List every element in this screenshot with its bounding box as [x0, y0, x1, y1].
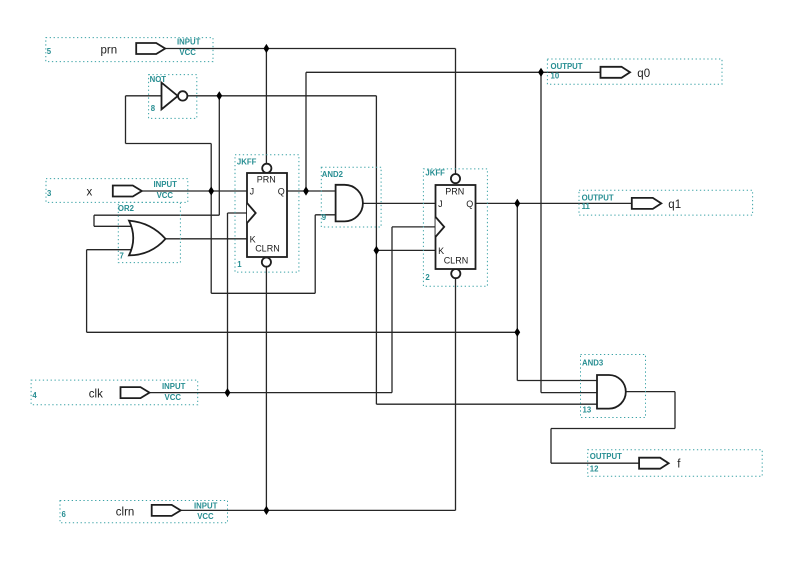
wire AND3 output [626, 391, 675, 393]
svg-text:x: x [87, 186, 93, 198]
wire q1 to AND3 top input [517, 380, 597, 382]
node junction Q1 [303, 186, 309, 195]
wire q0 horizontal [306, 71, 601, 73]
svg-text:INPUT: INPUT [154, 180, 178, 189]
svg-text:VCC: VCC [157, 191, 174, 200]
node junction Q2 [514, 199, 520, 208]
wire clrn horizontal [181, 509, 456, 511]
wire NOT output horizontal [187, 95, 376, 97]
output pin q0 (10) [547, 59, 722, 84]
wire Q2 to q1 output [476, 202, 632, 204]
svg-text:13: 13 [583, 405, 592, 414]
wire Q1 to AND2 input [287, 190, 336, 192]
svg-text:clrn: clrn [116, 506, 135, 518]
svg-text:J: J [250, 187, 255, 197]
node junction clrn [264, 506, 270, 515]
input pin clk (4) [31, 380, 198, 405]
svg-text:CLRN: CLRN [255, 243, 280, 253]
NOT gate (8) [149, 75, 197, 119]
svg-text:PRN: PRN [257, 174, 276, 184]
wire q0 to AND3 middle input [541, 392, 597, 394]
wire q0 down to AND3 [540, 72, 542, 392]
svg-text:INPUT: INPUT [177, 38, 201, 47]
svg-text:8: 8 [151, 104, 156, 113]
node junction prn [264, 44, 270, 53]
wire NOT to K of U2 [376, 249, 435, 251]
wire NOT branch horizontal [94, 214, 219, 216]
svg-text:Q: Q [278, 187, 285, 197]
JK flip-flop U1 JKFF (1) [235, 155, 299, 272]
wire clk up to U1 clock [227, 213, 229, 393]
svg-text:OUTPUT: OUTPUT [551, 62, 583, 71]
wire q1 feedback horizontal [87, 331, 518, 333]
wire prn horizontal [165, 48, 456, 50]
AND gate AND2 (9) [321, 167, 381, 227]
wire AND2 output to J of U2 [363, 202, 436, 204]
svg-text:J: J [438, 199, 443, 209]
svg-text:3: 3 [47, 189, 52, 198]
output pin q1 (11) [579, 190, 753, 215]
svg-text:VCC: VCC [165, 393, 182, 402]
svg-text:JKFF: JKFF [237, 157, 257, 166]
svg-text:OR2: OR2 [118, 204, 135, 213]
output pin f (12) [588, 450, 763, 477]
svg-text:10: 10 [551, 71, 560, 80]
svg-text:AND3: AND3 [582, 358, 604, 367]
svg-text:4: 4 [32, 391, 37, 400]
node junction q1 feedback [514, 328, 520, 337]
svg-text:prn: prn [101, 44, 118, 56]
wire x branch vertical [210, 144, 212, 294]
svg-text:2: 2 [425, 273, 430, 282]
wire prn to PRN of U2 [455, 49, 457, 175]
input pin prn (5) [46, 38, 213, 62]
svg-text:INPUT: INPUT [162, 382, 186, 391]
wire f route down [674, 392, 676, 429]
wire clrn up to CLRN of U1 [265, 267, 267, 510]
OR gate OR2 (7) [118, 202, 180, 262]
wire NOT input [126, 95, 162, 97]
svg-text:JKFF: JKFF [425, 168, 445, 177]
input pin clrn (6) [60, 501, 228, 523]
wire Q1 up [305, 72, 307, 191]
wire x to AND2 lower input [315, 214, 335, 216]
svg-text:PRN: PRN [445, 186, 464, 196]
AND gate AND3 (13) [581, 355, 646, 418]
svg-text:CLRN: CLRN [444, 255, 469, 265]
svg-text:NOT: NOT [150, 75, 167, 84]
wire clk up to U2 clock [391, 227, 393, 393]
wire NOT branch to OR2 top input [94, 225, 134, 227]
wire clk horizontal [150, 392, 393, 394]
wire clrn up to CLRN of U2 [455, 278, 457, 510]
wire x lower route horizontal [211, 292, 315, 294]
wire x to J of U1 [142, 190, 247, 192]
node junction x [208, 186, 214, 195]
svg-text:5: 5 [47, 47, 52, 56]
svg-text:11: 11 [582, 202, 591, 211]
wire NOT to AND3 bottom input [376, 403, 597, 405]
wire f route horizontal [551, 428, 675, 430]
svg-text:VCC: VCC [179, 48, 196, 57]
svg-text:INPUT: INPUT [194, 501, 218, 510]
wire q1 feedback to OR2 lower input [87, 249, 134, 251]
svg-text:1: 1 [237, 260, 242, 269]
wire clk to U1 clock input [228, 212, 248, 214]
node junction clk [225, 388, 231, 397]
wire q1 feedback up [86, 250, 88, 333]
svg-text:OUTPUT: OUTPUT [590, 452, 622, 461]
wire q1 down [516, 203, 518, 380]
svg-text:AND2: AND2 [322, 170, 344, 179]
wire prn to PRN of U1 [265, 49, 267, 165]
svg-text:6: 6 [62, 510, 67, 519]
JK flip-flop U2 JKFF (2) [423, 168, 487, 286]
node junction q0 [538, 68, 544, 77]
wire NOT branch down short [93, 215, 95, 226]
input pin x (3) [46, 179, 188, 203]
svg-text:VCC: VCC [197, 512, 214, 521]
svg-text:q0: q0 [637, 68, 650, 80]
wire NOT output long vertical [375, 96, 377, 404]
svg-text:7: 7 [120, 252, 124, 261]
wire x route up to AND2 [314, 215, 316, 293]
svg-text:q1: q1 [668, 199, 681, 211]
node junction NOT output [216, 91, 222, 100]
wire f to output pin [551, 462, 639, 464]
wire OR2 output to K of U1 [165, 238, 247, 240]
svg-text:9: 9 [322, 213, 327, 222]
svg-text:Q: Q [466, 199, 473, 209]
wire NOT input vertical [125, 96, 127, 144]
wire f route down 2 [550, 429, 552, 464]
wire clk to U2 clock input [392, 226, 436, 228]
wire x to NOT input horizontal [126, 143, 212, 145]
wire NOT output branch down [218, 96, 220, 215]
svg-text:12: 12 [590, 464, 599, 473]
node junction K2 [374, 246, 380, 255]
svg-text:clk: clk [89, 389, 103, 401]
